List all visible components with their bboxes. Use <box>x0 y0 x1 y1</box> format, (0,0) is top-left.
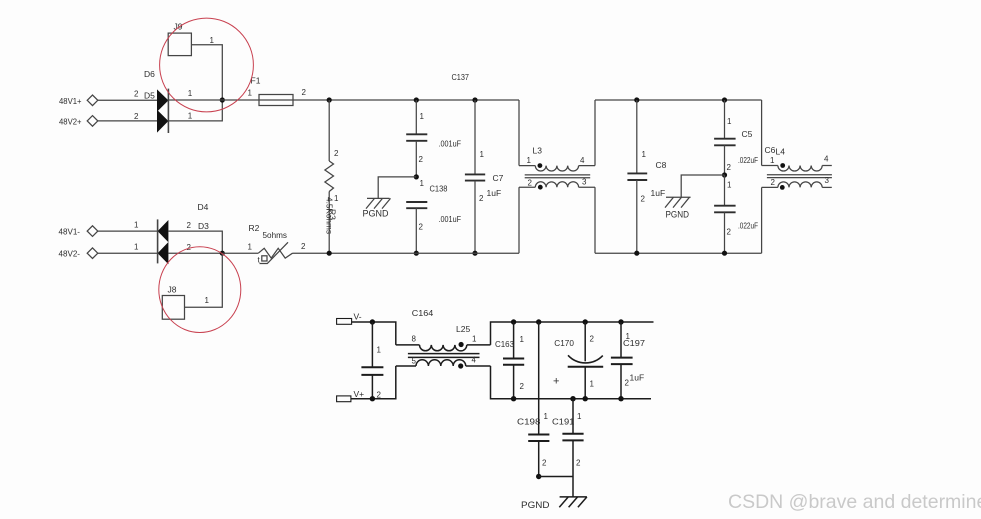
svg-text:PGND: PGND <box>521 500 550 511</box>
node C8 top <box>634 97 639 102</box>
diode D5 <box>157 110 168 133</box>
svg-text:1uF: 1uF <box>651 188 666 198</box>
svg-text:1: 1 <box>480 150 485 159</box>
wire to PGND branch <box>378 177 416 199</box>
node bottom left junction <box>220 251 225 256</box>
wire to PGND 2 <box>681 175 724 197</box>
svg-text:V+: V+ <box>354 389 365 399</box>
connector 48V2- <box>87 248 98 259</box>
svg-text:J8: J8 <box>168 284 177 294</box>
red circle around J9 <box>160 18 254 112</box>
svg-text:C8: C8 <box>656 160 667 170</box>
svg-text:R2: R2 <box>249 223 260 233</box>
svg-text:2: 2 <box>625 379 630 388</box>
svg-text:1: 1 <box>248 88 253 97</box>
svg-text:1: 1 <box>134 220 139 229</box>
svg-text:2: 2 <box>520 382 525 391</box>
capacitor C198 <box>528 435 549 477</box>
node C7 top <box>472 97 477 102</box>
wire D3 pin2 to node <box>168 252 222 254</box>
capacitor C163 <box>503 322 524 399</box>
svg-text:4: 4 <box>580 156 585 165</box>
capacitor C191 <box>562 399 583 497</box>
svg-text:.022uF: .022uF <box>738 155 758 165</box>
wire C198 to C191 <box>539 476 573 478</box>
wire bottom mid <box>595 252 762 254</box>
node C5/C6 junction <box>722 172 727 177</box>
svg-text:2: 2 <box>419 155 424 164</box>
svg-text:2: 2 <box>576 458 581 467</box>
wire D5 pin1 to node <box>168 100 222 121</box>
svg-text:1: 1 <box>205 296 210 305</box>
svg-text:1: 1 <box>134 243 139 252</box>
node C170 bottom <box>583 396 588 401</box>
connector J9 <box>168 33 191 56</box>
wire L25 pin1 to top rail <box>491 322 654 345</box>
connector J8 <box>162 296 184 320</box>
capacitor C170 polarized <box>568 322 604 399</box>
svg-text:2: 2 <box>334 149 339 158</box>
svg-text:L25: L25 <box>456 324 470 334</box>
node C164 bottom <box>370 396 375 401</box>
capacitor C197 <box>611 322 633 399</box>
svg-text:2: 2 <box>771 178 776 187</box>
capacitor C138 <box>406 202 427 253</box>
svg-text:3: 3 <box>582 177 587 186</box>
svg-text:C163: C163 <box>495 339 514 349</box>
cathode bar D6/D5 <box>167 89 169 133</box>
svg-text:C5: C5 <box>742 129 753 139</box>
svg-text:3: 3 <box>825 176 830 185</box>
svg-text:CSDN @brave and determined: CSDN @brave and determined <box>728 491 981 513</box>
svg-text:48V1+: 48V1+ <box>59 96 82 106</box>
diode D6 <box>157 89 168 111</box>
node C137 top <box>414 97 419 102</box>
diode D4 <box>158 220 169 242</box>
node C138 bottom <box>414 251 419 256</box>
red circle around J8 <box>159 247 241 333</box>
svg-text:1: 1 <box>770 156 775 165</box>
svg-text:1uF: 1uF <box>487 188 502 198</box>
wire node to J8 <box>185 253 223 307</box>
svg-text:5ohms: 5ohms <box>263 230 288 240</box>
svg-text:1uF: 1uF <box>630 372 645 382</box>
svg-text:V-: V- <box>354 311 362 321</box>
cathode bar D4/D3 <box>157 219 159 263</box>
node C191 top <box>570 396 575 401</box>
svg-text:2: 2 <box>542 458 547 467</box>
capacitor C137 <box>406 100 427 177</box>
svg-text:C170: C170 <box>554 338 574 348</box>
node C197 bottom <box>618 396 623 401</box>
svg-text:2: 2 <box>641 194 646 203</box>
svg-text:C138: C138 <box>430 184 448 194</box>
svg-text:2: 2 <box>528 178 533 187</box>
node C164 top <box>370 319 375 324</box>
node C198 bottom <box>536 474 541 479</box>
node C137/C138 junction <box>414 174 419 179</box>
svg-text:C6: C6 <box>765 145 776 155</box>
svg-text:D3: D3 <box>198 221 209 231</box>
connector 48V1- <box>87 226 98 237</box>
wire D4 pin2 to node <box>168 231 222 253</box>
port V+ <box>337 396 351 402</box>
svg-text:.022uF: .022uF <box>738 220 758 230</box>
wire top mid <box>595 99 762 101</box>
svg-text:8: 8 <box>412 334 417 343</box>
diode D3 <box>158 242 169 264</box>
thermistor R2 <box>258 242 292 263</box>
wire R2 to main <box>293 252 520 254</box>
svg-text:PGND: PGND <box>363 208 389 219</box>
svg-text:2: 2 <box>419 222 424 231</box>
svg-text:2: 2 <box>479 194 484 203</box>
svg-text:R3: R3 <box>328 209 338 220</box>
svg-text:2: 2 <box>134 89 139 98</box>
svg-text:PGND: PGND <box>666 209 690 220</box>
svg-text:1: 1 <box>472 334 477 343</box>
svg-text:1: 1 <box>248 243 253 252</box>
wire C198 drop <box>538 322 540 435</box>
svg-text:1: 1 <box>188 111 193 120</box>
svg-text:1: 1 <box>210 36 215 45</box>
svg-text:1: 1 <box>377 345 382 354</box>
svg-text:5: 5 <box>412 356 417 365</box>
node C197 top <box>618 319 623 324</box>
svg-text:1: 1 <box>642 150 647 159</box>
svg-text:1: 1 <box>626 332 631 341</box>
svg-text:2: 2 <box>301 242 306 251</box>
svg-text:D5: D5 <box>144 90 155 100</box>
svg-text:4: 4 <box>472 356 477 365</box>
svg-text:1: 1 <box>727 117 732 126</box>
wire L25 pin4 to bottom rail <box>491 366 652 399</box>
svg-text:2: 2 <box>134 112 139 121</box>
svg-text:1: 1 <box>188 89 193 98</box>
svg-text:C198: C198 <box>517 417 541 427</box>
svg-text:C137: C137 <box>452 72 470 82</box>
svg-text:C7: C7 <box>493 173 504 183</box>
connector 48V1+ <box>87 95 98 106</box>
inductor L25 <box>396 342 491 369</box>
svg-text:4: 4 <box>824 155 829 164</box>
node C8 bottom <box>634 251 639 256</box>
svg-text:48V2-: 48V2- <box>59 249 81 259</box>
node C198 top <box>536 319 541 324</box>
svg-text:2: 2 <box>727 163 732 172</box>
node C7 bottom <box>472 251 477 256</box>
svg-text:2: 2 <box>302 88 307 97</box>
capacitor C7 <box>465 100 485 253</box>
node J9 junction <box>220 97 225 102</box>
wire V+ to L25 <box>351 366 396 399</box>
wire 48V1- to D4 <box>98 230 158 232</box>
svg-text:1: 1 <box>727 181 732 190</box>
svg-text:1: 1 <box>544 412 549 421</box>
wire node to R2 <box>222 252 258 254</box>
svg-text:1: 1 <box>420 112 425 121</box>
svg-text:.001uF: .001uF <box>439 138 462 148</box>
svg-text:2: 2 <box>590 334 595 343</box>
svg-text:D6: D6 <box>144 69 155 79</box>
svg-text:2: 2 <box>187 221 192 230</box>
inductor L3 <box>519 100 595 253</box>
capacitor C6 <box>714 175 736 253</box>
port V- <box>337 319 352 325</box>
capacitor C5 <box>714 100 736 175</box>
inductor L4 <box>762 100 832 253</box>
fuse F1 <box>259 95 293 106</box>
wire 48V2+ to D5 <box>98 120 157 122</box>
svg-text:C191: C191 <box>552 417 575 427</box>
node C6 bottom <box>722 251 727 256</box>
svg-text:1: 1 <box>527 156 532 165</box>
svg-text:1: 1 <box>590 379 595 388</box>
svg-text:1: 1 <box>520 335 525 344</box>
wire J9 to node <box>191 45 222 100</box>
ground PGND 3 <box>559 497 587 507</box>
ground PGND <box>366 198 391 208</box>
svg-text:48V2+: 48V2+ <box>59 116 82 126</box>
svg-text:.001uF: .001uF <box>439 214 462 224</box>
svg-text:48V1-: 48V1- <box>59 227 81 237</box>
ground PGND 2 <box>665 197 691 207</box>
capacitor C8 <box>627 100 647 253</box>
svg-text:2: 2 <box>727 227 732 236</box>
node R2 resistor junction <box>327 251 332 256</box>
node C170 top <box>583 319 588 324</box>
svg-text:1: 1 <box>577 412 582 421</box>
resistor R3 4.5Kohms <box>325 100 334 253</box>
wire 48V1+ to D6 <box>98 99 157 101</box>
svg-text:L3: L3 <box>533 145 543 155</box>
svg-text:C164: C164 <box>412 308 434 318</box>
svg-text:+: + <box>553 375 559 387</box>
wire V- to L25 <box>352 322 396 345</box>
node C163 top <box>511 319 516 324</box>
capacitor C164 <box>361 322 383 399</box>
wire top main <box>168 99 519 101</box>
svg-text:1: 1 <box>420 179 425 188</box>
node C163 bottom <box>511 396 516 401</box>
node resistor top junction <box>327 97 332 102</box>
connector 48V2+ <box>87 116 98 127</box>
wire 48V2- to D3 <box>98 252 158 254</box>
svg-text:D4: D4 <box>198 202 209 212</box>
svg-text:L4: L4 <box>776 146 786 156</box>
node C5 top <box>722 97 727 102</box>
box of t label <box>262 256 267 261</box>
